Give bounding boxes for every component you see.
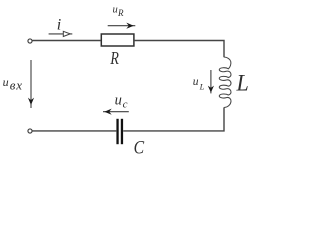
svg-text:R: R — [110, 48, 119, 68]
svg-text:c: c — [123, 99, 128, 111]
svg-text:C: C — [134, 137, 145, 158]
svg-text:L: L — [236, 70, 249, 95]
svg-text:R: R — [117, 8, 124, 18]
svg-text:u: u — [193, 76, 199, 88]
svg-text:u: u — [115, 92, 122, 108]
svg-text:вх: вх — [10, 78, 23, 93]
svg-text:u: u — [3, 75, 9, 89]
svg-text:L: L — [199, 82, 205, 92]
svg-text:u: u — [113, 5, 118, 16]
svg-text:i: i — [57, 17, 61, 34]
